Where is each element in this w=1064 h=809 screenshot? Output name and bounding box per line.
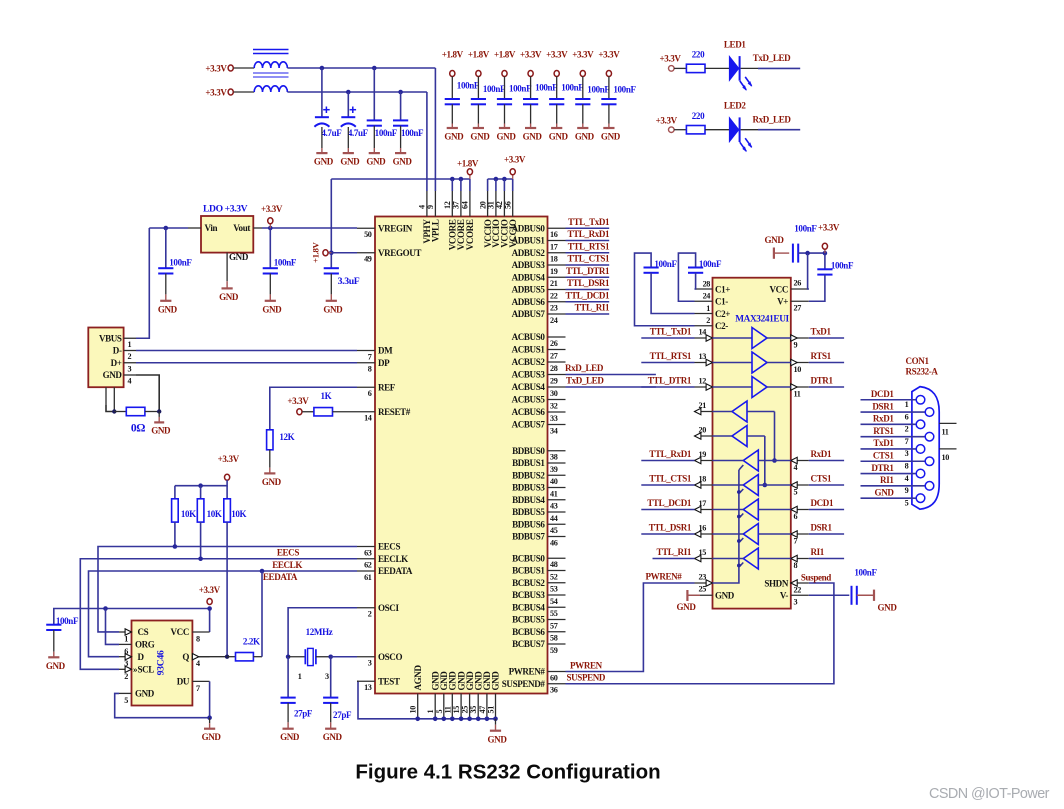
pin stub GND 93C46	[119, 692, 132, 694]
pin arrow 23 MAX3241	[706, 580, 712, 586]
pin arrow 4 MAX3241 right	[791, 457, 797, 463]
svg-text:BCBUS1: BCBUS1	[512, 566, 545, 576]
resistor 10K (R1)	[172, 499, 179, 522]
junction GND bus pin 35	[476, 717, 481, 722]
pin stub ACBUS1 U1	[548, 349, 566, 351]
svg-text:10: 10	[794, 365, 802, 374]
svg-text:PWREN: PWREN	[570, 660, 603, 670]
svg-text:BCBUS4: BCBUS4	[512, 602, 545, 612]
junction EECS/R1	[173, 544, 178, 549]
junction GND bus pin 10	[415, 717, 420, 722]
pin stub EECLK U1	[357, 558, 375, 560]
ground (decap 6)	[575, 119, 595, 142]
junction V+ cap node	[823, 251, 828, 256]
junction +3.3V term/Vout	[268, 226, 273, 231]
pin arrow 5 MAX3241 right	[791, 482, 797, 488]
capacitor 100nF (V+ reservoir)	[817, 261, 854, 275]
svg-text:ACBUS0: ACBUS0	[512, 332, 546, 342]
wire net EECLK	[80, 559, 357, 670]
ground (MAX3241 pin25)	[677, 590, 700, 612]
receiver buffer row y534	[743, 524, 758, 545]
wire driver out row 9	[767, 337, 791, 339]
wire crystal left lead	[288, 656, 305, 658]
pin stub D+ (VBUS conn)	[124, 362, 136, 364]
wire net TTL_RTS1 (U1 side)	[566, 252, 610, 254]
svg-text:55: 55	[550, 609, 558, 618]
svg-text:TTL_DSR1: TTL_DSR1	[567, 278, 610, 288]
wire net CTS1 (MAX side)	[809, 484, 844, 486]
svg-text:16: 16	[550, 230, 558, 239]
svg-text:8: 8	[794, 561, 798, 570]
svg-text:48: 48	[550, 560, 558, 569]
pin stub ADBUS7 U1	[548, 313, 566, 315]
pin stub 22 MAX3241 right	[791, 582, 809, 584]
svg-text:35: 35	[469, 706, 478, 714]
pin stub 14 MAX3241	[695, 337, 713, 339]
junction VCC rail / term	[207, 606, 212, 611]
capacitor 100nF (V- reservoir)	[852, 568, 878, 605]
wire decap 6 bottom lead	[582, 104, 584, 119]
pin arrow SCL 93C46	[125, 666, 131, 672]
wire net PWREN	[566, 583, 695, 672]
resistor 12K	[267, 430, 273, 450]
junction enable chain y509.5	[737, 515, 741, 519]
wire bypass cap bottom lead	[53, 630, 55, 646]
wire XC1 lead	[287, 657, 289, 698]
svg-text:LED1: LED1	[724, 40, 746, 50]
pin arrow 15 MAX3241	[695, 555, 701, 561]
wire decap 3 top lead	[504, 76, 506, 99]
svg-text:2.2K: 2.2K	[243, 636, 260, 646]
resistor 1K	[314, 408, 333, 416]
svg-text:93C46: 93C46	[156, 650, 167, 675]
svg-text:TTL_DTR1: TTL_DTR1	[566, 266, 610, 276]
svg-text:44: 44	[550, 514, 558, 523]
pin stub VCC 93C46	[192, 631, 209, 633]
svg-text:RTS1: RTS1	[811, 351, 832, 361]
svg-text:56: 56	[504, 201, 513, 209]
receiver buffer row y509.5	[743, 499, 758, 520]
svg-text:GND: GND	[497, 132, 517, 142]
svg-text:TxD_LED: TxD_LED	[753, 53, 791, 63]
wire capA top path	[635, 253, 695, 326]
pin arrow 9 MAX3241 right	[791, 335, 797, 341]
power terminal +3.3V (decap 4)	[528, 71, 533, 77]
svg-text:12: 12	[699, 376, 707, 385]
svg-text:GND: GND	[715, 591, 735, 601]
svg-text:64: 64	[461, 201, 470, 209]
svg-text:+3.3V: +3.3V	[818, 223, 840, 233]
wire receiver in row y436	[747, 435, 765, 437]
op-amp driver buffer row 9	[752, 328, 767, 349]
junction GND bus pin 11	[450, 717, 455, 722]
wire R1 top lead	[174, 486, 176, 499]
svg-text:TEST: TEST	[378, 676, 400, 686]
svg-text:C2-: C2-	[715, 321, 728, 331]
wire REF to 12K	[270, 387, 357, 430]
svg-text:27pF: 27pF	[333, 710, 352, 720]
wire receiver in row y509.5	[758, 509, 791, 511]
svg-text:100nF: 100nF	[375, 128, 398, 138]
svg-text:ACBUS3: ACBUS3	[512, 370, 546, 380]
svg-text:27pF: 27pF	[294, 709, 313, 719]
wire VCORE pin2 riser	[460, 179, 462, 191]
svg-text:8: 8	[196, 635, 200, 644]
wire driver in row 10	[713, 362, 753, 364]
svg-text:20: 20	[699, 425, 707, 434]
junction EECLK/R2	[198, 556, 203, 561]
wire 3.3uF bottom lead	[330, 274, 332, 289]
wire VCCIO pin3 riser	[503, 179, 505, 191]
wire capB top path	[678, 253, 695, 301]
wire net TTL_TxD1 (U1 side)	[566, 227, 610, 229]
svg-text:26: 26	[550, 339, 558, 348]
wire R to LED (LED2)	[705, 129, 729, 131]
svg-text:100nF: 100nF	[535, 83, 558, 93]
pin stub SUSPEND# U1	[548, 683, 566, 685]
pin stub 9 MAX3241 right	[791, 337, 809, 339]
wire D+ to DP	[136, 362, 357, 364]
svg-text:63: 63	[364, 548, 372, 557]
wire 1K to RESET#	[333, 411, 358, 413]
pin stub OSCI U1	[357, 607, 375, 609]
wire C2 bottom lead	[347, 127, 349, 143]
pin stub GND/51 U1 bottom	[495, 694, 497, 719]
svg-text:ACBUS5: ACBUS5	[512, 395, 546, 405]
svg-text:DSR1: DSR1	[872, 401, 894, 411]
svg-text:RTS1: RTS1	[873, 426, 894, 436]
svg-text:ACBUS2: ACBUS2	[512, 357, 546, 367]
svg-text:50: 50	[364, 230, 372, 239]
svg-text:GND: GND	[323, 304, 343, 314]
svg-text:45: 45	[550, 526, 558, 535]
svg-text:ORG: ORG	[135, 640, 155, 650]
junction rail2/C2	[346, 90, 351, 95]
junction rx21/RxD1	[772, 458, 777, 463]
svg-text:EEDATA: EEDATA	[263, 572, 298, 582]
wire VCC node	[798, 252, 825, 254]
pin stub 8 MAX3241 right	[791, 558, 809, 560]
wire 2.2K right lead	[253, 656, 262, 658]
svg-text:54: 54	[550, 597, 558, 606]
wire net RxD1 (MAX side)	[809, 460, 844, 462]
receiver buffer row y411.5	[732, 401, 747, 422]
inductor L1 winding	[254, 62, 287, 68]
svg-text:+3.3V: +3.3V	[205, 64, 227, 74]
svg-text:18: 18	[699, 474, 707, 483]
svg-text:12MHz: 12MHz	[306, 627, 333, 637]
svg-text:TxD1: TxD1	[811, 326, 832, 336]
wire receiver in row y558.5	[758, 558, 791, 560]
svg-text:RI1: RI1	[811, 547, 825, 557]
svg-text:23: 23	[550, 304, 558, 313]
ground (93C46 bypass)	[46, 646, 66, 671]
svg-text:VCC: VCC	[171, 627, 189, 637]
pin stub BCBUS6 U1	[548, 631, 566, 633]
receiver buffer row y485	[743, 475, 758, 496]
svg-text:+3.3V: +3.3V	[261, 204, 283, 214]
pin arrow 20 MAX3241	[695, 433, 701, 439]
wire 0ohm right lead	[145, 411, 159, 413]
svg-text:MAX3241EUI: MAX3241EUI	[735, 315, 789, 325]
ground (VCC cap)	[765, 235, 790, 259]
wire VCCIO pin1 riser	[487, 179, 489, 191]
svg-text:ADBUS2: ADBUS2	[512, 248, 546, 258]
svg-text:8: 8	[905, 461, 909, 470]
ground (XC2)	[323, 716, 343, 742]
svg-text:SUSPEND: SUSPEND	[567, 673, 606, 683]
svg-text:6: 6	[368, 389, 372, 398]
wire decap 5 bottom lead	[556, 104, 558, 119]
svg-text:24: 24	[550, 316, 558, 325]
pin arrow Q 93C46	[192, 654, 198, 660]
svg-text:18: 18	[550, 255, 558, 264]
svg-text:V+: V+	[777, 297, 788, 307]
svg-text:+3.3V: +3.3V	[656, 115, 678, 125]
svg-text:VCCIO: VCCIO	[508, 219, 518, 248]
pin arrow 13 MAX3241	[706, 359, 712, 365]
transformer core lines (middle pair)	[253, 73, 289, 77]
transformer core lines (upper pair)	[253, 50, 289, 54]
svg-text:13: 13	[699, 352, 707, 361]
svg-text:EECS: EECS	[378, 542, 400, 552]
svg-text:4.7uF: 4.7uF	[348, 128, 369, 138]
receiver buffer row y436	[732, 426, 747, 447]
pin stub ADBUS0 U1	[548, 227, 566, 229]
wire net TTL_CTS1 (MAX side)	[641, 484, 694, 486]
ground (decap 3)	[497, 119, 517, 142]
wire receiver out row y460.5	[713, 460, 744, 462]
pin stub PWREN# U1	[548, 671, 566, 673]
wire GND pin4 down	[136, 375, 159, 412]
junction C5 top	[164, 226, 169, 231]
svg-text:TTL_DCD1: TTL_DCD1	[647, 498, 692, 508]
pin stub TEST U1	[357, 680, 375, 682]
wire Vout to VREGIN	[262, 227, 357, 229]
wire VCC riser	[808, 253, 809, 289]
pin stub VCCIO/42 U1	[503, 191, 505, 217]
wire net EECS	[98, 547, 357, 632]
svg-text:Suspend: Suspend	[801, 573, 831, 583]
wire C4 top lead	[400, 92, 402, 120]
svg-text:GND: GND	[491, 671, 501, 691]
svg-text:C1-: C1-	[715, 297, 728, 307]
svg-text:4: 4	[196, 659, 200, 668]
svg-text:2: 2	[905, 425, 909, 434]
svg-text:EECLK: EECLK	[272, 560, 302, 570]
pin stub 4 MAX3241 right	[791, 460, 809, 462]
svg-text:+1.8V: +1.8V	[457, 159, 479, 169]
wire decap 4 bottom lead	[530, 104, 532, 119]
svg-text:DU: DU	[177, 677, 190, 687]
wire decap 6 top lead	[582, 76, 584, 99]
wire XC1 bottom lead	[287, 703, 289, 716]
svg-text:1: 1	[124, 635, 128, 644]
svg-text:Vin: Vin	[205, 223, 218, 233]
wire TEST to bus	[357, 680, 359, 682]
svg-text:TxD_LED: TxD_LED	[566, 376, 604, 386]
wire net RTS1 (DB9)	[861, 436, 926, 438]
svg-text:16: 16	[699, 523, 707, 532]
svg-text:ADBUS7: ADBUS7	[512, 309, 546, 319]
wire receiver in row y485	[758, 484, 791, 486]
svg-text:11: 11	[942, 428, 949, 437]
ground (decap 1)	[444, 119, 464, 142]
svg-text:CSDN @IOT-Power: CSDN @IOT-Power	[929, 786, 1050, 802]
pin stub AGND/10 U1 bottom	[417, 694, 419, 719]
ground (LDO)	[219, 274, 239, 302]
pin stub GND/11 U1 bottom	[451, 694, 453, 719]
op-amp driver buffer row 10	[752, 352, 767, 373]
svg-text:DSR1: DSR1	[811, 522, 833, 532]
pin arrow 17 MAX3241	[695, 506, 701, 512]
pin stub BCBUS3 U1	[548, 594, 566, 596]
pin stub VCCIO/56 U1	[512, 191, 514, 217]
svg-text:11: 11	[443, 706, 452, 713]
pin stub 20 MAX3241	[695, 435, 713, 437]
resistor 2.2K	[236, 653, 254, 661]
wire crystal right lead	[316, 656, 331, 658]
wire D- to DM	[136, 350, 357, 352]
svg-text:TTL_RI1: TTL_RI1	[656, 547, 691, 557]
svg-text:21: 21	[550, 279, 558, 288]
wire VCORE pins to rail	[451, 179, 453, 191]
wire LED out (LED1)	[741, 67, 758, 69]
wire C2 top lead	[347, 92, 349, 117]
svg-text:14: 14	[699, 327, 707, 336]
svg-text:100nF: 100nF	[654, 259, 677, 269]
pin arrow 18 MAX3241	[695, 482, 701, 488]
svg-text:BDBUS7: BDBUS7	[512, 532, 545, 542]
svg-text:GND: GND	[323, 732, 343, 742]
svg-text:C2+: C2+	[715, 309, 730, 319]
wire VCCIO pin4 riser	[512, 179, 514, 191]
svg-text:GND: GND	[523, 132, 543, 142]
svg-text:4: 4	[905, 474, 909, 483]
pin stub VCCIO/31 U1	[495, 191, 497, 217]
wire decap 1 bottom lead	[451, 104, 453, 119]
wire R1 bottom to EECS	[174, 522, 176, 546]
pin stub SCL 93C46	[119, 668, 132, 670]
junction GND bus pin 5	[442, 717, 447, 722]
wire term to R (LED1)	[674, 67, 686, 69]
wire net TTL_DTR1 (MAX side)	[641, 386, 694, 388]
wire from +3.3V to L2	[234, 91, 255, 93]
svg-text:57: 57	[550, 621, 558, 630]
svg-text:17: 17	[699, 499, 707, 508]
wire 93C46 DU pin7	[209, 681, 211, 717]
pin stub VREGOUT U1	[357, 252, 375, 254]
wire term to R (LED2)	[674, 129, 686, 131]
ground (decap 7)	[601, 119, 621, 142]
power terminal +1.8V (VREGOUT)	[323, 250, 331, 256]
wire receiver out row y411.5	[713, 411, 733, 413]
pin stub ACBUS3 U1	[548, 374, 566, 376]
pin stub VREGIN U1	[357, 227, 375, 229]
wire V+ cap lead	[824, 253, 826, 269]
ground (C4)	[393, 143, 413, 167]
svg-text:GND: GND	[393, 157, 413, 167]
svg-text:100nF: 100nF	[169, 258, 192, 268]
svg-text:TTL_CTS1: TTL_CTS1	[567, 254, 610, 264]
svg-text:10K: 10K	[207, 509, 222, 519]
junction enable chain y558.5	[737, 564, 741, 568]
capacitor 100nF (decap 3)	[497, 99, 512, 104]
svg-text:9: 9	[426, 205, 435, 209]
pin arrow 14 MAX3241	[706, 335, 712, 341]
wire decap 4 top lead	[530, 76, 532, 99]
wire net DTR1 (DB9)	[861, 473, 917, 475]
pin stub 13 MAX3241	[695, 362, 713, 364]
pin stub 21 MAX3241	[695, 411, 713, 413]
junction GND bus pin 1	[433, 717, 438, 722]
svg-text:19: 19	[699, 450, 707, 459]
wire C3 top lead	[373, 68, 375, 120]
svg-text:TTL_RTS1: TTL_RTS1	[650, 351, 692, 361]
capacitor 4.7uF (C2)	[341, 107, 369, 139]
wire net TxD1 (MAX side)	[809, 337, 844, 339]
wire net TTL_DSR1 (MAX side)	[641, 533, 694, 535]
svg-text:DCD1: DCD1	[811, 498, 834, 508]
pin stub ACBUS6 U1	[548, 411, 566, 413]
svg-text:ACBUS1: ACBUS1	[512, 345, 546, 355]
wire net TTL_RxD1 (MAX side)	[641, 460, 694, 462]
svg-text:60: 60	[550, 673, 558, 682]
ground (12K)	[262, 462, 282, 487]
svg-text:RI1: RI1	[880, 475, 894, 485]
svg-text:22: 22	[794, 585, 802, 594]
pin stub 17 MAX3241	[695, 509, 713, 511]
svg-text:+3.3V: +3.3V	[504, 155, 526, 165]
power terminal +1.8V (decap 1)	[450, 71, 455, 77]
junction shield/0ohm	[112, 409, 116, 413]
wire C5 bottom lead	[165, 274, 167, 289]
svg-text:+1.8V: +1.8V	[494, 50, 516, 60]
wire enable chain vertical	[713, 470, 739, 583]
svg-text:21: 21	[699, 401, 707, 410]
capacitor 100nF (decap 6)	[575, 99, 590, 104]
wire capA bottom path	[651, 273, 694, 314]
svg-text:6: 6	[905, 412, 909, 421]
wire receiver out row y485	[713, 484, 744, 486]
svg-text:100nF: 100nF	[794, 223, 817, 233]
svg-text:220: 220	[692, 50, 705, 60]
svg-text:62: 62	[364, 561, 372, 570]
svg-text:2: 2	[124, 672, 128, 681]
svg-text:TTL_RxD1: TTL_RxD1	[649, 449, 692, 459]
capacitor 100nF (C3)	[367, 120, 398, 138]
svg-text:GND: GND	[202, 732, 222, 742]
capacitor 3.3uF	[324, 268, 339, 273]
pin stub ACBUS2 U1	[548, 361, 566, 363]
svg-text:TTL_TxD1: TTL_TxD1	[650, 326, 692, 336]
svg-text:37: 37	[452, 201, 461, 209]
pin arrow D 93C46	[125, 654, 131, 660]
svg-text:TTL_DTR1: TTL_DTR1	[648, 375, 692, 385]
wire net RxD_LED (U1 side)	[566, 374, 656, 376]
resistor 220 (LED1)	[686, 64, 705, 72]
svg-text:+1.8V: +1.8V	[468, 50, 490, 60]
pin stub EEDATA U1	[357, 570, 375, 572]
wire OSCO net	[331, 656, 357, 658]
svg-text:4.7uF: 4.7uF	[321, 128, 342, 138]
svg-text:D: D	[138, 652, 145, 662]
pin stub BCBUS7 U1	[548, 643, 566, 645]
svg-text:GND: GND	[470, 132, 490, 142]
pin stub LDO GND	[226, 253, 228, 274]
svg-text:28: 28	[550, 364, 558, 373]
capacitor 100nF (C6)	[263, 258, 297, 274]
